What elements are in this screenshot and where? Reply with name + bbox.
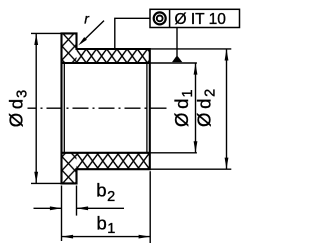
svg-text:Ø IT 10: Ø IT 10: [175, 11, 227, 28]
svg-text:Ød3: Ød3: [6, 90, 31, 128]
svg-text:Ød2: Ød2: [194, 89, 219, 127]
svg-text:b1: b1: [97, 213, 116, 238]
svg-text:Ød1: Ød1: [171, 89, 196, 127]
svg-text:b2: b2: [96, 180, 115, 205]
svg-text:r: r: [84, 11, 90, 27]
